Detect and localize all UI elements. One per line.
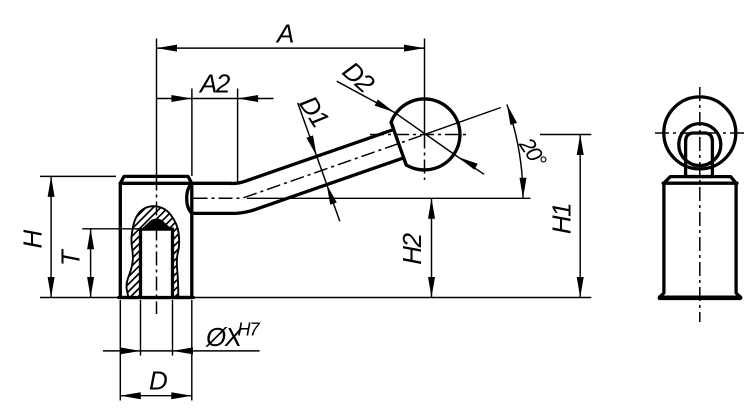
dim H1 extension top xyxy=(540,134,591,136)
dim D arrow left xyxy=(120,392,141,399)
right view body shoulder line xyxy=(663,182,737,185)
dim D2 leader lower tail xyxy=(458,157,484,174)
svg-text:A2: A2 xyxy=(198,69,231,99)
angle arrow bottom xyxy=(520,178,527,199)
hub top chamfer edge xyxy=(120,182,192,185)
bore left edge xyxy=(139,229,142,298)
dim H arrow up xyxy=(48,176,55,197)
dim D2 leader upper xyxy=(337,81,395,112)
right view vertical centerline xyxy=(699,87,701,322)
dim A2 line xyxy=(157,98,274,100)
dim A2 arrow right (outside) xyxy=(238,95,259,102)
dim H extension top xyxy=(40,175,116,177)
baseline thick under hub xyxy=(119,296,194,299)
dim A arrow right xyxy=(404,45,425,52)
dim T arrow up xyxy=(87,229,94,250)
dim OX arrow left (outside) xyxy=(120,347,141,354)
ball vertical centerline below center xyxy=(424,135,426,181)
dim D extension left xyxy=(119,300,121,401)
angle arrow top xyxy=(507,105,517,126)
right view body xyxy=(659,177,741,298)
svg-text:H2: H2 xyxy=(397,232,427,264)
dim H2 arrow up xyxy=(428,198,435,219)
dim A2 arrow left (outside) xyxy=(171,95,192,102)
dim H arrow down xyxy=(48,277,55,298)
dim D1 arrow bottom xyxy=(327,184,337,205)
dim OX line xyxy=(103,350,260,352)
dim D2 arrow lower xyxy=(458,157,478,170)
dim A2 extension right xyxy=(237,89,239,183)
svg-text:D: D xyxy=(149,366,167,396)
dim H2 line xyxy=(431,198,433,297)
dim OX extension left xyxy=(140,300,142,356)
bore hole xyxy=(141,229,173,298)
right view collar circle xyxy=(679,124,721,166)
dim T line xyxy=(90,229,92,298)
bore right edge xyxy=(171,229,174,298)
baseline xyxy=(40,297,591,299)
hub vertical centerline xyxy=(156,177,158,315)
svg-text:A: A xyxy=(275,19,293,49)
dim D extension right xyxy=(191,300,193,401)
dim H line xyxy=(50,176,52,297)
section hatching xyxy=(0,200,435,300)
dim D arrow right xyxy=(171,392,192,399)
arm axis centerline xyxy=(194,135,425,199)
dim A arrow left xyxy=(157,45,178,52)
right view bottom edge (extra thick) xyxy=(658,295,741,300)
lever arm with ball knob xyxy=(187,99,460,213)
dim A line xyxy=(157,47,425,49)
dim H2 reference line (arm axis height) xyxy=(247,197,531,199)
svg-text:H1: H1 xyxy=(547,204,577,234)
dim D1 leader xyxy=(298,103,340,222)
dim A2 extension left xyxy=(191,89,193,177)
thread cone (black) xyxy=(139,219,173,231)
ball flat face edge xyxy=(391,122,406,165)
dim H1 arrow down xyxy=(577,277,584,298)
dim H1 line xyxy=(579,135,581,298)
dim D line xyxy=(120,395,192,397)
angle arc 20deg xyxy=(507,105,523,199)
dim H1 arrow up xyxy=(577,135,584,156)
svg-text:H: H xyxy=(17,230,47,249)
hub body outline xyxy=(120,176,192,297)
section break-out boundary xyxy=(127,206,180,297)
dim OX extension right xyxy=(172,300,174,356)
dim D1 arrow top xyxy=(306,135,316,156)
dim H2 arrow down xyxy=(428,277,435,298)
dim T arrow down xyxy=(87,277,94,298)
ball horizontal centerline xyxy=(370,134,470,136)
dim D2 arrow upper xyxy=(375,100,395,113)
dim A extension right (ball center up) xyxy=(424,39,426,135)
axis extension (solid) xyxy=(425,108,501,135)
right view ball circle xyxy=(664,97,736,169)
dim D2 line through ball xyxy=(394,112,458,157)
right view horizontal centerline xyxy=(655,132,745,134)
right view neck xyxy=(686,133,713,177)
dim T extension top xyxy=(82,228,140,230)
svg-text:H7: H7 xyxy=(238,320,261,340)
dim A extension left (hub centerline up) xyxy=(156,39,158,177)
dim OX arrow right (outside) xyxy=(173,347,194,354)
